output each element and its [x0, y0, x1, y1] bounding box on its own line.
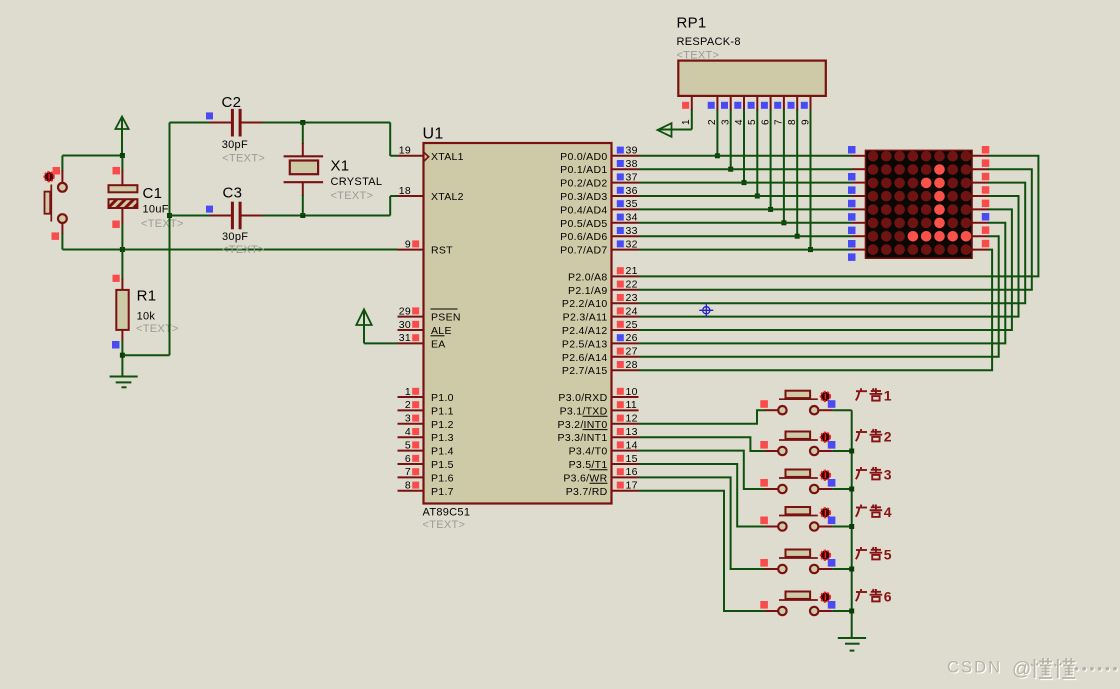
svg-text:P0.3/AD3: P0.3/AD3 — [560, 191, 607, 203]
svg-text:10: 10 — [626, 386, 638, 398]
svg-text:P3.2/INT0: P3.2/INT0 — [558, 419, 608, 431]
svg-text:ALE: ALE — [431, 325, 452, 337]
svg-text:27: 27 — [626, 346, 638, 358]
svg-text:R1: R1 — [137, 288, 157, 305]
svg-text:P1.7: P1.7 — [431, 486, 454, 498]
svg-text:P1.6: P1.6 — [431, 472, 454, 484]
svg-text:29: 29 — [399, 305, 411, 317]
svg-text:2: 2 — [405, 399, 411, 411]
svg-text:PSEN: PSEN — [431, 312, 461, 324]
svg-text:XTAL2: XTAL2 — [431, 191, 464, 203]
svg-text:P0.1/AD1: P0.1/AD1 — [560, 164, 607, 176]
svg-text:6: 6 — [405, 453, 411, 465]
svg-text:22: 22 — [626, 279, 638, 291]
svg-text:6: 6 — [884, 588, 892, 604]
svg-text:10uF: 10uF — [143, 204, 169, 216]
svg-text:P0.6/AD6: P0.6/AD6 — [560, 231, 607, 243]
svg-text:P0.5/AD5: P0.5/AD5 — [560, 218, 607, 230]
svg-text:38: 38 — [626, 158, 638, 170]
svg-text:C2: C2 — [222, 94, 242, 111]
svg-text:11: 11 — [626, 399, 638, 411]
svg-text:P1.5: P1.5 — [431, 459, 454, 471]
svg-text:P3.6/WR: P3.6/WR — [563, 472, 607, 484]
svg-text:P2.5/A13: P2.5/A13 — [562, 338, 608, 350]
svg-text:P1.4: P1.4 — [431, 446, 454, 458]
svg-text:3: 3 — [884, 466, 892, 482]
svg-text:P1.1: P1.1 — [431, 405, 454, 417]
svg-text:37: 37 — [626, 171, 638, 183]
svg-text:30: 30 — [399, 319, 411, 331]
svg-text:32: 32 — [626, 238, 638, 250]
svg-text:4: 4 — [405, 426, 411, 438]
svg-text:28: 28 — [626, 359, 638, 371]
svg-text:<TEXT>: <TEXT> — [677, 50, 720, 62]
svg-text:EA: EA — [431, 338, 446, 350]
svg-text:P2.1/A9: P2.1/A9 — [568, 285, 607, 297]
svg-text:1: 1 — [681, 119, 692, 125]
svg-text:P0.2/AD2: P0.2/AD2 — [560, 178, 607, 190]
svg-text:12: 12 — [626, 413, 638, 425]
svg-text:P2.3/A11: P2.3/A11 — [563, 312, 608, 324]
svg-text:P2.2/A10: P2.2/A10 — [562, 298, 608, 310]
svg-text:36: 36 — [626, 185, 638, 197]
svg-text:<TEXT>: <TEXT> — [141, 218, 184, 230]
svg-text:AT89C51: AT89C51 — [423, 507, 471, 519]
svg-text:<TEXT>: <TEXT> — [222, 152, 265, 164]
svg-text:30pF: 30pF — [222, 231, 248, 243]
svg-text:19: 19 — [399, 145, 411, 157]
svg-text:25: 25 — [626, 319, 638, 331]
svg-text:P3.1/TXD: P3.1/TXD — [560, 405, 608, 417]
svg-text:26: 26 — [626, 332, 638, 344]
svg-text:14: 14 — [626, 439, 638, 451]
svg-text:17: 17 — [626, 480, 638, 492]
svg-text:16: 16 — [626, 466, 638, 478]
svg-text:P3.5/T1: P3.5/T1 — [569, 459, 608, 471]
svg-text:23: 23 — [626, 292, 638, 304]
svg-text:RST: RST — [431, 245, 453, 257]
svg-text:21: 21 — [626, 265, 638, 277]
svg-text:31: 31 — [399, 332, 411, 344]
svg-text:4: 4 — [884, 504, 892, 520]
svg-text:34: 34 — [626, 212, 638, 224]
svg-text:15: 15 — [626, 453, 638, 465]
svg-text:P3.4/T0: P3.4/T0 — [569, 446, 608, 458]
svg-text:33: 33 — [626, 225, 638, 237]
svg-text:9: 9 — [405, 238, 411, 250]
svg-text:P1.3: P1.3 — [431, 432, 454, 444]
svg-text:RESPACK-8: RESPACK-8 — [677, 36, 741, 48]
svg-text:5: 5 — [884, 546, 892, 562]
svg-text:P3.0/RXD: P3.0/RXD — [558, 392, 607, 404]
svg-text:<TEXT>: <TEXT> — [331, 190, 374, 202]
svg-text:P3.3/INT1: P3.3/INT1 — [558, 432, 608, 444]
svg-text:C1: C1 — [143, 185, 163, 202]
svg-text:XTAL1: XTAL1 — [431, 151, 464, 163]
svg-text:P1.0: P1.0 — [431, 392, 454, 404]
svg-text:P2.7/A15: P2.7/A15 — [562, 365, 608, 377]
svg-text:5: 5 — [405, 439, 411, 451]
svg-text:30pF: 30pF — [222, 139, 248, 151]
svg-text:RP1: RP1 — [677, 15, 707, 32]
svg-text:10k: 10k — [137, 311, 156, 323]
svg-text:P2.0/A8: P2.0/A8 — [568, 271, 607, 283]
svg-text:8: 8 — [405, 480, 411, 492]
svg-text:24: 24 — [626, 305, 638, 317]
svg-text:7: 7 — [405, 466, 411, 478]
svg-text:1: 1 — [884, 388, 892, 404]
svg-text:CRYSTAL: CRYSTAL — [331, 176, 383, 188]
svg-text:P2.6/A14: P2.6/A14 — [562, 352, 608, 364]
svg-text:<TEXT>: <TEXT> — [222, 244, 265, 256]
svg-text:1: 1 — [405, 386, 411, 398]
svg-text:P0.0/AD0: P0.0/AD0 — [560, 151, 607, 163]
svg-text:35: 35 — [626, 198, 638, 210]
svg-text:P0.4/AD4: P0.4/AD4 — [560, 204, 607, 216]
svg-text:CSDN: CSDN — [947, 659, 1002, 677]
svg-text:X1: X1 — [331, 158, 350, 175]
svg-text:39: 39 — [626, 145, 638, 157]
svg-text:P2.4/A12: P2.4/A12 — [562, 325, 608, 337]
svg-text:P0.7/AD7: P0.7/AD7 — [560, 245, 607, 257]
svg-text:C3: C3 — [223, 185, 243, 202]
svg-text:2: 2 — [884, 428, 892, 444]
svg-text:P1.2: P1.2 — [431, 419, 454, 431]
svg-text:U1: U1 — [423, 126, 444, 143]
svg-text:P3.7/RD: P3.7/RD — [566, 486, 608, 498]
svg-text:3: 3 — [405, 413, 411, 425]
svg-text:@: @ — [1012, 659, 1031, 680]
svg-text:13: 13 — [626, 426, 638, 438]
svg-text:<TEXT>: <TEXT> — [136, 323, 179, 335]
svg-text:<TEXT>: <TEXT> — [423, 519, 466, 531]
svg-text:18: 18 — [399, 185, 411, 197]
